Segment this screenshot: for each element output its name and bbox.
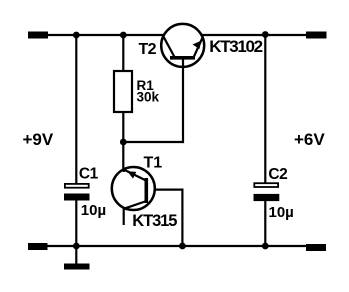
terminal top-left (+9V input)	[28, 32, 48, 39]
capacitor C2	[254, 183, 280, 201]
svg-text:+6V: +6V	[294, 130, 325, 149]
svg-text:10µ: 10µ	[269, 204, 294, 221]
svg-text:C1: C1	[79, 166, 99, 183]
svg-text:30k: 30k	[137, 90, 160, 105]
wire T2 base vertical	[182, 58, 184, 143]
wire C1 to ground	[75, 199, 77, 265]
transistor T1 (KT315)	[112, 167, 155, 210]
svg-text:T2: T2	[139, 41, 157, 58]
svg-text:+9V: +9V	[23, 130, 54, 149]
terminal bottom-right	[306, 244, 326, 251]
terminal bottom-left	[28, 243, 48, 250]
svg-text:T1: T1	[144, 155, 163, 172]
transistor T2 (KT3102)	[161, 24, 204, 67]
wire node A to T1 emitter	[122, 142, 124, 171]
wire T1 collector open stub	[123, 207, 125, 225]
node junction bottom rail / C1 ground	[73, 243, 80, 250]
wire T1 base horizontal	[148, 189, 182, 191]
wire C2 branch vertical top	[264, 35, 266, 184]
svg-text:C2: C2	[268, 166, 287, 183]
svg-text:KT315: KT315	[132, 212, 177, 230]
ground	[64, 264, 90, 270]
node junction bottom rail / T1 base	[179, 243, 186, 250]
wire R1 bottom lead to node A	[122, 111, 124, 142]
node junction top rail / C1	[73, 32, 80, 39]
capacitor C1	[64, 184, 90, 201]
node junction top rail / C2	[262, 31, 269, 38]
wire R1 top lead	[122, 35, 124, 72]
wire node A horizontal to T2 base	[123, 141, 183, 143]
svg-text:10µ: 10µ	[81, 202, 106, 219]
node junction bottom rail / C2	[262, 243, 269, 250]
wire top rail	[38, 34, 306, 36]
wire bottom rail	[38, 245, 306, 247]
terminal top-right (+6V output)	[306, 32, 327, 39]
wire C2 bottom lead	[264, 199, 266, 246]
node junction top rail / R1	[120, 32, 127, 39]
resistor R1	[114, 71, 132, 112]
wire T1 base to bottom rail	[181, 189, 183, 247]
wire C1 branch vertical	[75, 35, 77, 184]
node A junction	[120, 139, 127, 146]
svg-text:KT3102: KT3102	[209, 37, 262, 56]
